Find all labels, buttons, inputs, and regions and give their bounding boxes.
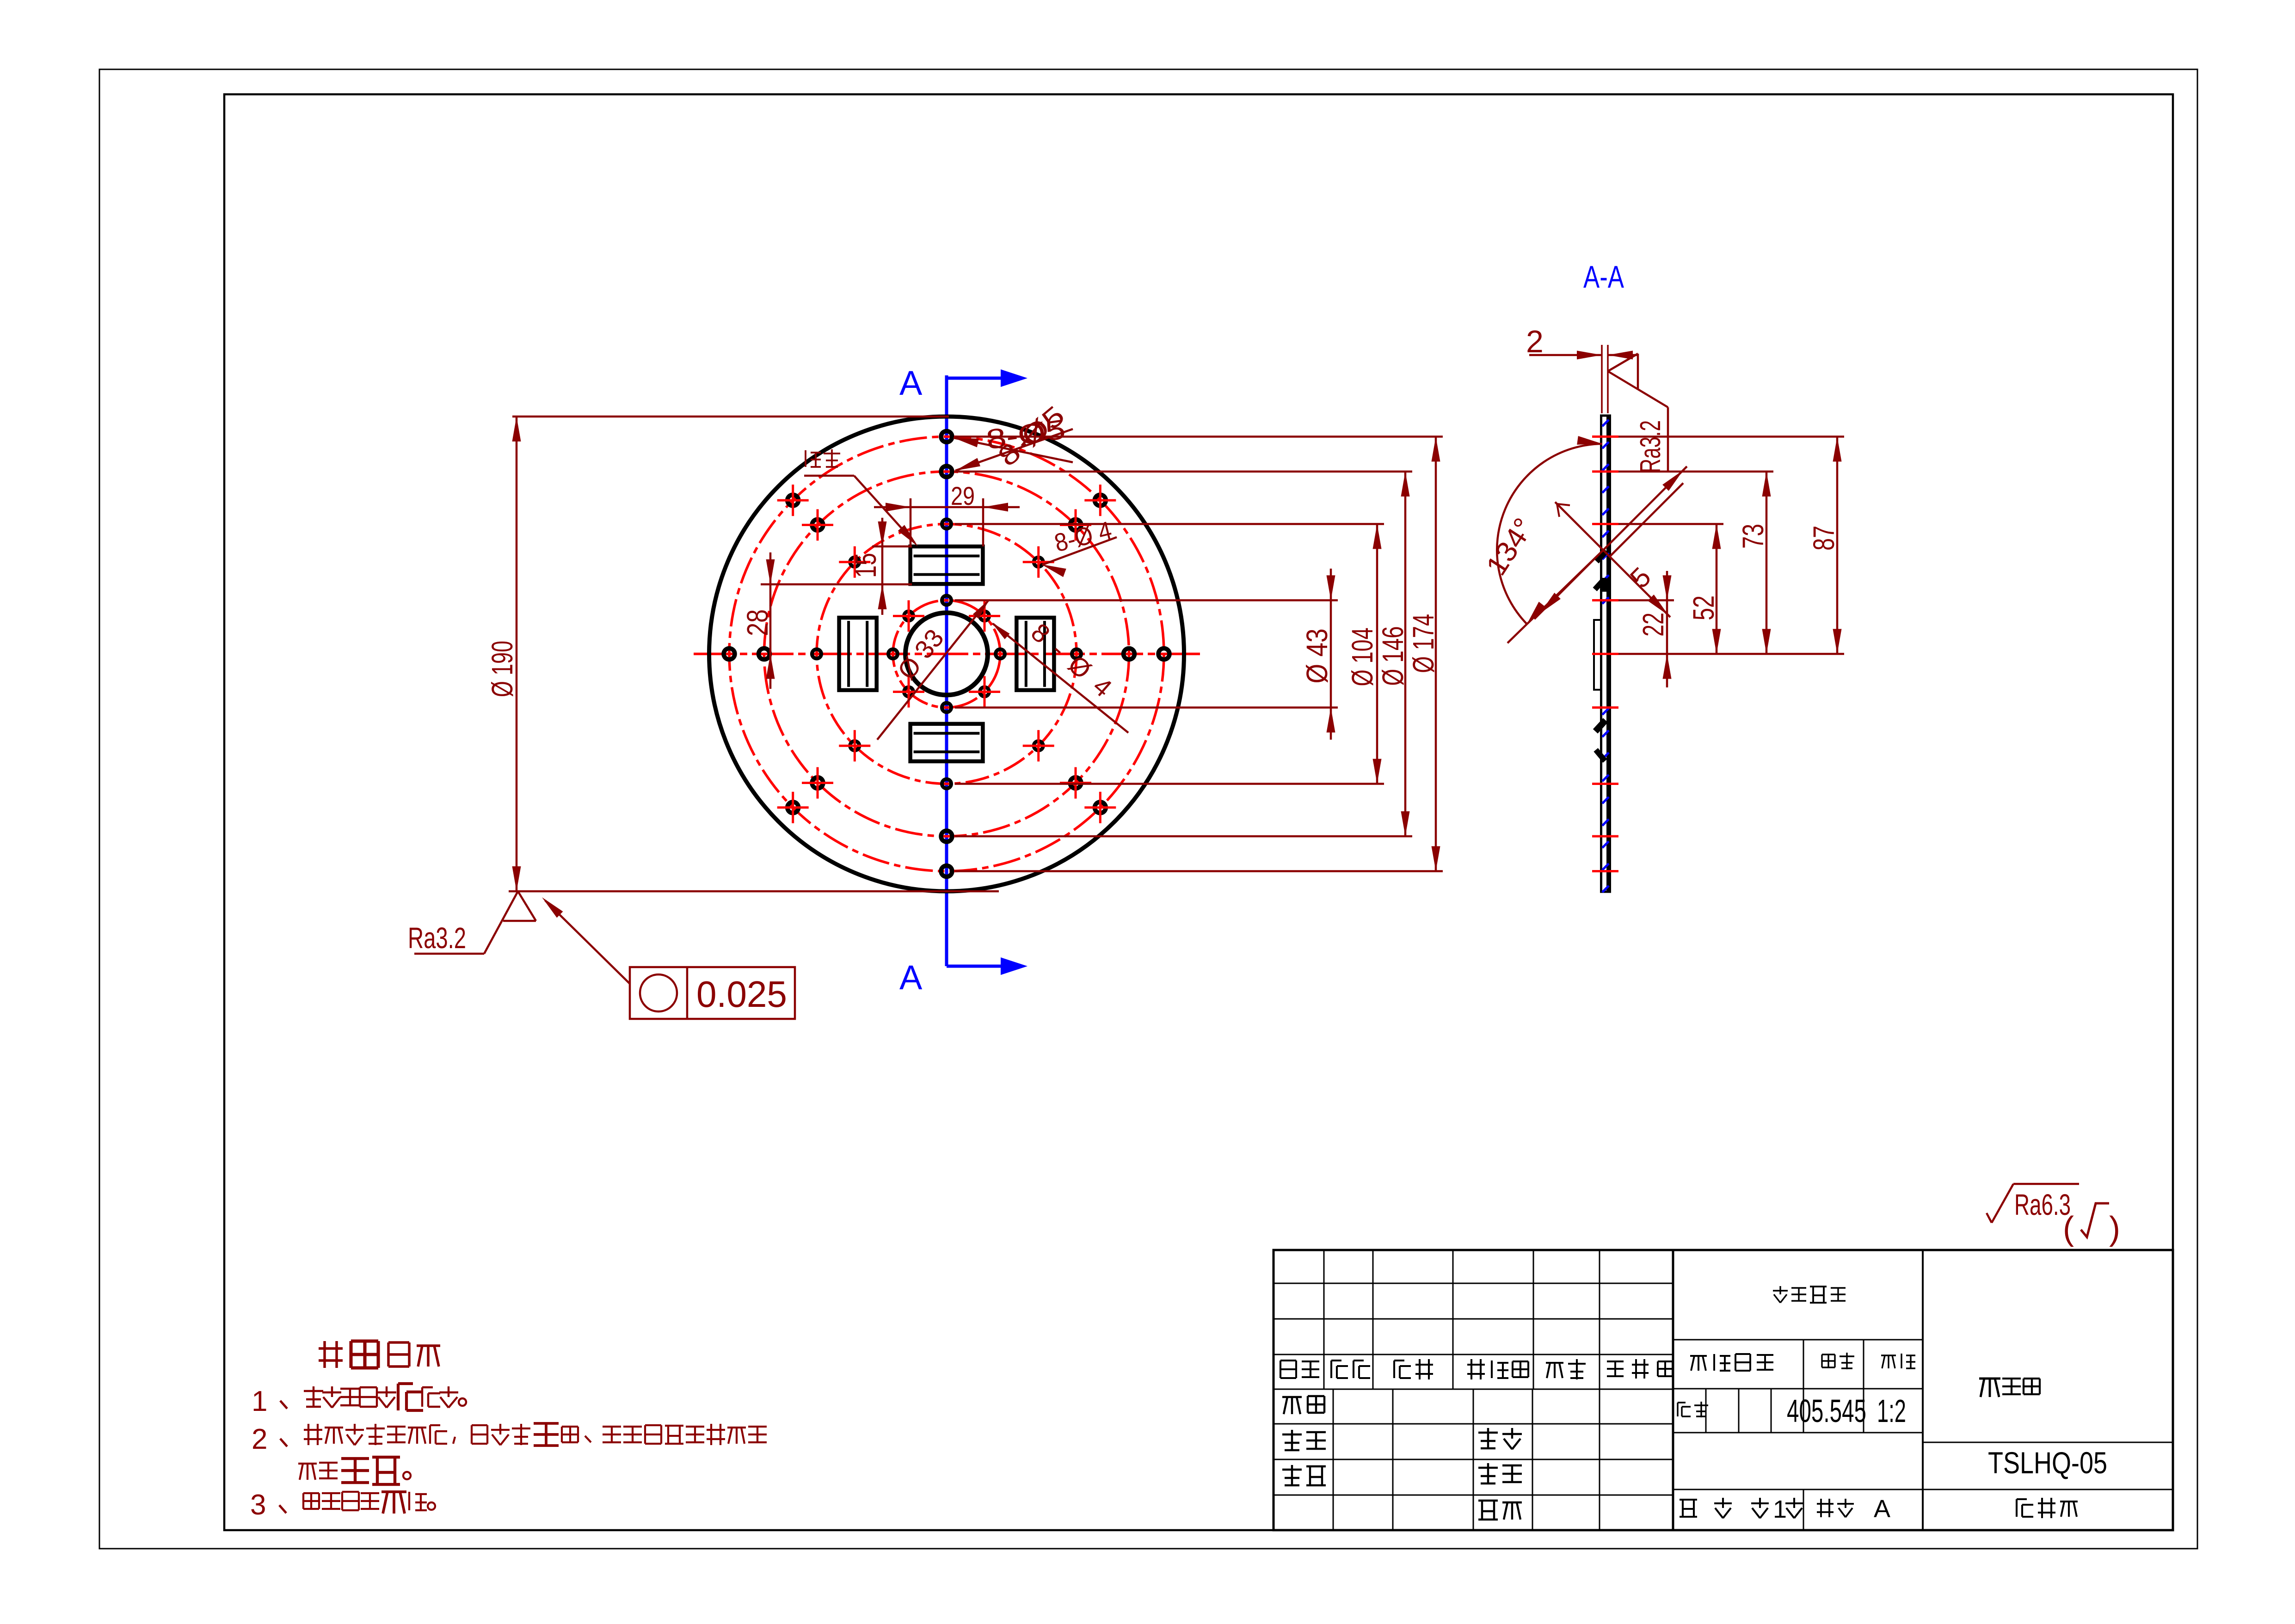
svg-text:A: A <box>1874 1495 1890 1523</box>
svg-text:52: 52 <box>1687 595 1720 620</box>
label D33 with diagonal leader <box>877 600 989 740</box>
centerline horizontal (red) <box>694 653 1200 656</box>
svg-text:): ) <box>2109 1210 2120 1247</box>
hole pattern 8 holes on circle r=394.5 (8-D5 inner) <box>941 466 952 477</box>
hub hole contour in section <box>1594 620 1601 690</box>
dimension D104 <box>1376 524 1378 784</box>
window right <box>1016 618 1054 690</box>
svg-text:28: 28 <box>741 609 774 636</box>
section cut blobs (window bridges) <box>1596 551 1606 561</box>
label junbu (evenly spaced) with leader <box>806 450 821 467</box>
technical requirements notes <box>319 1341 343 1368</box>
svg-text:Ra3.2: Ra3.2 <box>408 921 466 955</box>
svg-text:Ra6.3: Ra6.3 <box>2014 1188 2071 1221</box>
svg-text:A-A: A-A <box>1583 259 1624 294</box>
red hole position marks on section <box>1592 435 1618 438</box>
dimension 15 (window height) <box>872 545 912 548</box>
extension lines to right-side diameter dims <box>955 435 1443 438</box>
leader from tolerance frame <box>545 901 630 984</box>
dimension 87 <box>1836 437 1839 654</box>
svg-text:73: 73 <box>1736 524 1770 549</box>
svg-text:15: 15 <box>849 553 882 578</box>
section cut line A-A (blue vertical) <box>945 375 948 966</box>
svg-text:A: A <box>899 364 923 402</box>
dimension 28 (window inner edge to center) <box>769 552 772 689</box>
svg-text:Ø 146: Ø 146 <box>1376 626 1409 686</box>
bolt circle D104 <box>817 524 1077 784</box>
svg-text:Ø 190: Ø 190 <box>486 641 519 697</box>
dimension D190 <box>512 416 949 418</box>
svg-text:Ø 174: Ø 174 <box>1407 614 1440 673</box>
svg-text:405.545: 405.545 <box>1787 1393 1866 1429</box>
cone angle construction lines <box>1534 466 1687 619</box>
dimension D43 <box>1330 569 1332 740</box>
svg-text:2: 2 <box>1526 324 1544 359</box>
outer circle D190 <box>709 417 1184 891</box>
section arrow A bottom <box>947 965 1002 968</box>
hole pattern 8 holes on circle r=116.0 (8-D4 inner) <box>942 596 951 605</box>
label 8-D4 for D43 holes <box>993 624 1128 733</box>
dimension D146 <box>1404 472 1407 836</box>
bolt circle D146 <box>764 472 1129 836</box>
window left <box>839 618 877 690</box>
surface finish Ra3.2 bottom left <box>484 891 518 954</box>
svg-text:29: 29 <box>951 481 975 510</box>
svg-text:1:2: 1:2 <box>1877 1393 1906 1429</box>
title block right table <box>1673 1339 1923 1341</box>
window top <box>911 546 983 584</box>
dimension 22 <box>1666 571 1668 687</box>
section hatching (blue) <box>1602 420 1609 892</box>
extension lines from section to radial dims <box>1618 435 1844 438</box>
title block left table <box>1274 1283 1673 1284</box>
bolt circle D174 <box>729 437 1164 871</box>
title block frame <box>1274 1250 2173 1530</box>
svg-text:Ø 104: Ø 104 <box>1346 628 1379 686</box>
hole pattern 8 holes on circle r=470.0 (8-D5 outer) <box>941 431 952 442</box>
svg-text:3: 3 <box>250 1489 266 1521</box>
svg-text:1: 1 <box>1773 1495 1787 1523</box>
svg-text:87: 87 <box>1807 526 1840 551</box>
title block labels <box>1280 1360 1296 1378</box>
section arrow A top <box>947 377 1002 380</box>
dimension 29 (window width) <box>910 498 912 546</box>
svg-text:A: A <box>899 958 923 997</box>
label 8-D5 with leaders to top holes <box>954 438 1073 462</box>
hole pattern 8 holes on circle r=281.0 (8-D4 outer) <box>942 520 951 529</box>
svg-text:Ø 43: Ø 43 <box>1300 629 1334 684</box>
svg-text:2: 2 <box>252 1423 267 1455</box>
dimension 52 <box>1716 524 1718 654</box>
svg-text:22: 22 <box>1637 613 1670 637</box>
svg-text:0.025: 0.025 <box>696 974 787 1015</box>
dimension D174 <box>1435 437 1437 871</box>
svg-text:TSLHQ-05: TSLHQ-05 <box>1988 1446 2107 1480</box>
inner border frame <box>224 94 2173 1530</box>
svg-text:Ra3.2: Ra3.2 <box>1635 420 1667 473</box>
svg-text:(: ( <box>2063 1210 2074 1247</box>
center hole D33 <box>905 613 988 695</box>
label 8-D4 for D104 holes <box>1042 537 1117 565</box>
window bottom <box>911 724 983 761</box>
datum roundness tolerance frame 0.025 <box>630 967 795 1019</box>
surface finish symbol on section top <box>1608 354 1638 371</box>
angle dimension 134 deg <box>1497 444 1602 624</box>
section bar outline <box>1601 416 1610 892</box>
surface finish Ra6.3 note <box>1992 1184 2013 1223</box>
dimension 73 <box>1766 472 1768 654</box>
bolt circle D43 <box>893 601 1000 708</box>
svg-text:1: 1 <box>252 1385 267 1417</box>
dimension 2 (plate thickness) <box>1601 345 1603 413</box>
